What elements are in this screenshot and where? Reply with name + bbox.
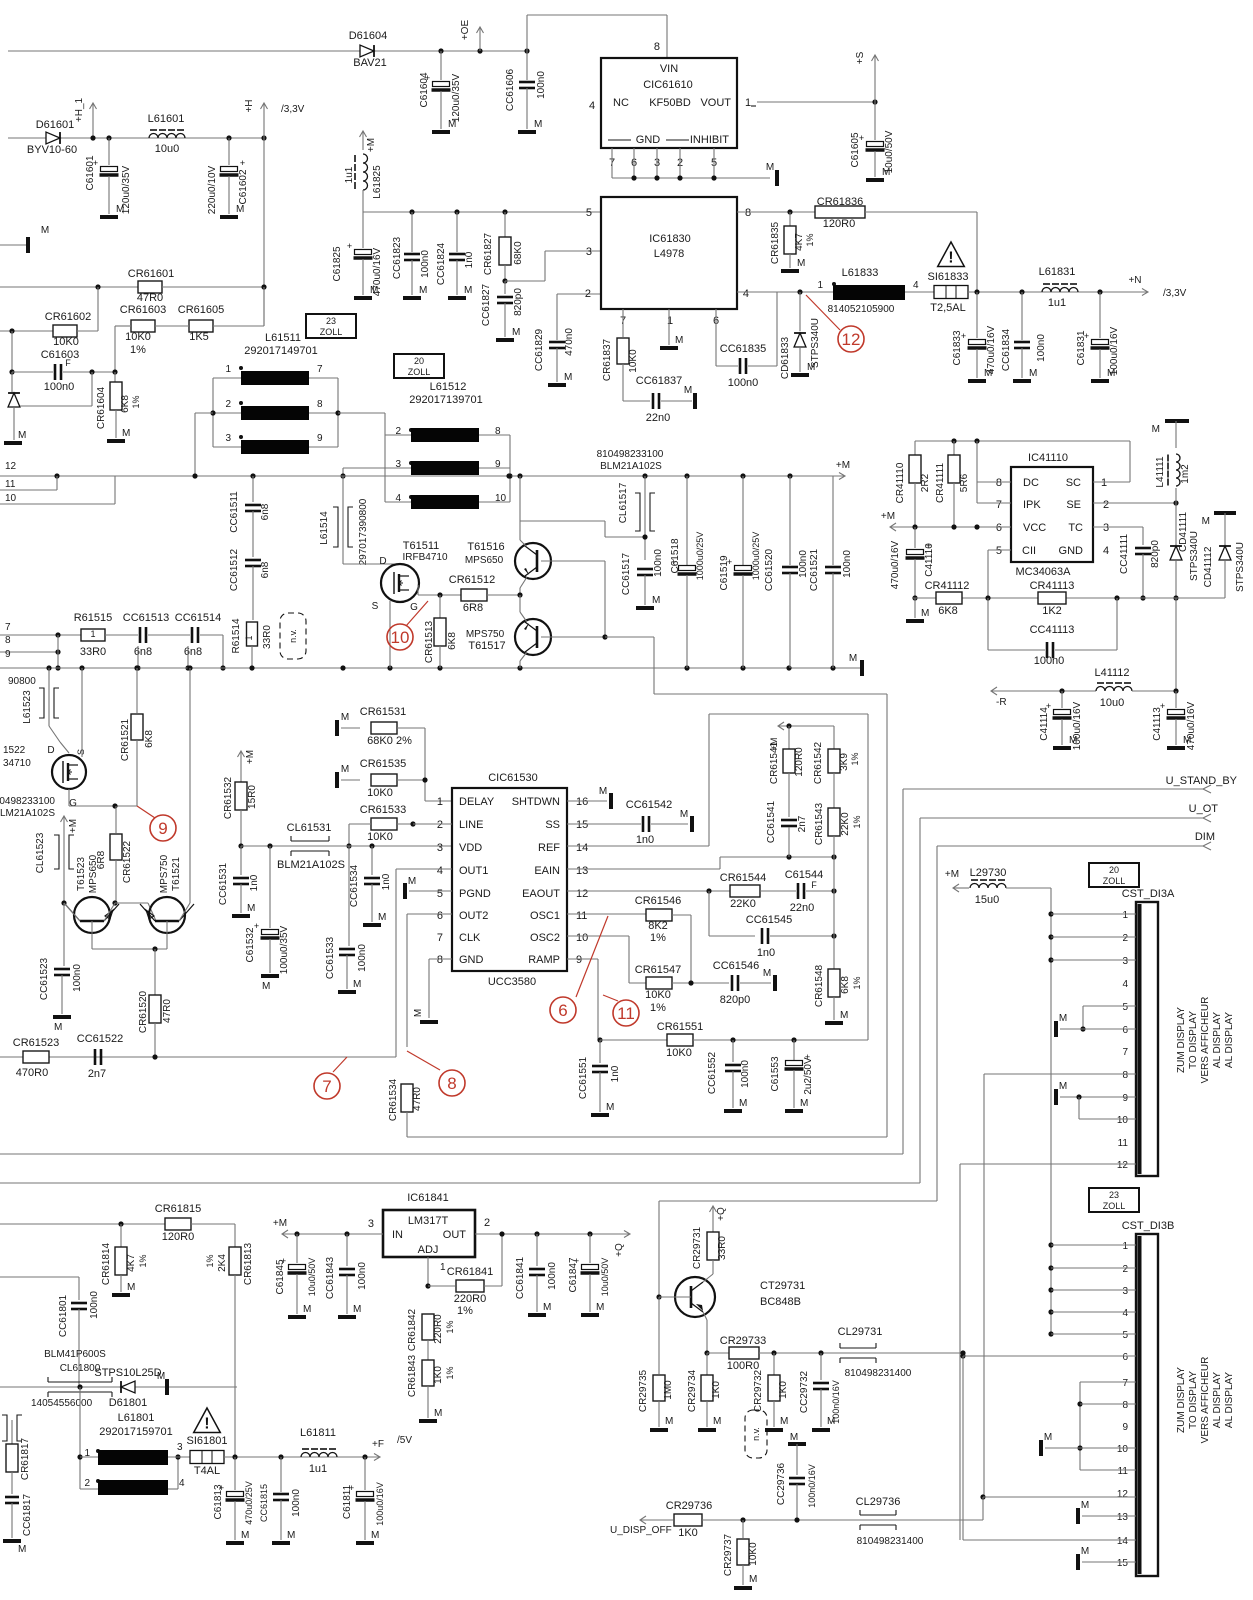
ground M CC29736 top: [788, 1442, 806, 1446]
svg-text:M: M: [1107, 368, 1115, 379]
svg-text:100n0: 100n0: [44, 381, 75, 393]
svg-text:+S: +S: [855, 51, 866, 64]
svg-text:1u1: 1u1: [1048, 297, 1066, 309]
svg-text:100n0: 100n0: [653, 549, 664, 577]
svg-text:CL61531: CL61531: [287, 822, 332, 834]
resistor CR61817 left edge: [11, 1420, 13, 1444]
ground M CC61523: [53, 1015, 71, 1019]
svg-text:CST_DI3A: CST_DI3A: [1122, 888, 1175, 900]
ground M CC61824: [448, 296, 466, 300]
svg-text:23: 23: [1109, 1190, 1119, 1200]
wire L61801 left rail: [79, 1387, 81, 1489]
svg-text:9: 9: [576, 954, 582, 966]
wire CR61602 to CR61601 node: [77, 330, 98, 332]
svg-text:120R0: 120R0: [162, 1231, 194, 1243]
svg-text:2: 2: [484, 1217, 490, 1229]
capacitor CC61823 100n0: [409, 209, 414, 214]
svg-text:1K0: 1K0: [778, 1381, 789, 1399]
ground M CC61829: [548, 383, 566, 387]
zener diode left edge: [11, 372, 13, 392]
svg-text:L61811: L61811: [300, 1427, 336, 1439]
svg-text:M: M: [116, 204, 124, 215]
svg-text:CC29732: CC29732: [799, 1370, 810, 1413]
resistor CR61602 10K0: [0, 330, 53, 332]
diode D61601 BYV10-60: [46, 132, 60, 144]
svg-text:1: 1: [745, 97, 751, 109]
resistor CR61532 15R0: [240, 766, 242, 782]
svg-text:7: 7: [1122, 1047, 1128, 1058]
fuse SI61833 T2,5AL: [934, 286, 968, 299]
svg-text:810498233100: 810498233100: [0, 796, 55, 807]
svg-text:+Q: +Q: [614, 1243, 625, 1257]
svg-text:CD41112: CD41112: [1203, 546, 1214, 587]
wire DI3A pin2: [1048, 934, 1053, 939]
svg-text:C61532: C61532: [245, 927, 256, 962]
svg-text:STPS340U: STPS340U: [810, 318, 821, 368]
svg-text:CR61542: CR61542: [813, 741, 824, 784]
svg-text:1%: 1%: [850, 752, 860, 765]
svg-text:+M: +M: [245, 750, 256, 764]
svg-text:AL DISPLAY: AL DISPLAY: [1224, 1372, 1235, 1428]
box 23 ZOLL DI3B: [1089, 1188, 1139, 1212]
svg-text:LINE: LINE: [459, 819, 483, 831]
svg-text:6K8: 6K8: [447, 632, 458, 650]
red callout 12: [806, 295, 840, 330]
box 20 ZOLL DI3A: [1089, 863, 1139, 887]
svg-text:M: M: [763, 968, 771, 979]
svg-text:810498231400: 810498231400: [845, 1368, 912, 1379]
svg-text:10: 10: [391, 628, 410, 647]
svg-text:-R: -R: [996, 697, 1007, 708]
svg-text:T61523: T61523: [76, 857, 87, 891]
svg-text:C61604: C61604: [419, 72, 430, 107]
svg-text:D: D: [379, 556, 386, 567]
ground M CR61814: [112, 1293, 130, 1297]
svg-text:10K0: 10K0: [666, 1047, 692, 1059]
ground M C61825: [354, 296, 372, 300]
svg-text:470u0/16V: 470u0/16V: [890, 540, 901, 589]
wire L41112 node: [1175, 598, 1177, 691]
capacitor CC61513 6n8: [105, 634, 138, 636]
capacitor CC61801 100n0: [71, 1302, 87, 1305]
IC61830 L4978 box: [601, 197, 737, 309]
svg-text:M: M: [534, 119, 542, 130]
svg-text:CR41111: CR41111: [935, 463, 946, 503]
svg-text:220R0: 220R0: [433, 1314, 444, 1344]
svg-text:3: 3: [1122, 956, 1128, 967]
wire pin4 OUT1: [396, 868, 452, 870]
svg-text:CR61815: CR61815: [155, 1203, 201, 1215]
svg-text:100n0: 100n0: [357, 1262, 368, 1290]
capacitor CC61514 6n8: [148, 634, 190, 636]
resistor CR61543 22K0 1%: [828, 808, 840, 836]
svg-text:UCC3580: UCC3580: [488, 976, 536, 988]
svg-text:/5V: /5V: [397, 1435, 412, 1446]
svg-text:CLK: CLK: [459, 932, 481, 944]
ground M CR61604: [107, 439, 125, 443]
svg-text:12: 12: [1117, 1489, 1129, 1500]
wire DIM bottom y=1201: [659, 1200, 937, 1202]
svg-text:5R6: 5R6: [959, 473, 970, 492]
capacitor CC61815 100n0: [278, 1454, 283, 1459]
wire DI3B pins7-11 link: [1079, 1382, 1081, 1470]
wire OUT1 riser: [395, 869, 397, 1057]
wire base rail to feedback: [605, 636, 654, 638]
capacitor C61604 120u0/35V: [438, 48, 443, 53]
wire T61516 collector aux path: [520, 520, 605, 522]
wire CR61521 drop: [136, 752, 138, 806]
node +H arrow /3,3V: [261, 135, 266, 140]
svg-text:100n0: 100n0: [1036, 334, 1047, 362]
svg-text:CR29734: CR29734: [687, 1369, 698, 1412]
capacitor C41113 470u0/16V: [1175, 691, 1177, 708]
svg-text:34710: 34710: [3, 758, 31, 769]
svg-text:3: 3: [1103, 522, 1109, 534]
svg-text:L61833: L61833: [842, 267, 879, 279]
capacitor CC61520 100n0: [789, 476, 791, 565]
wire zener to C61603 row: [91, 372, 93, 406]
svg-text:CST_DI3B: CST_DI3B: [1122, 1220, 1175, 1232]
svg-text:INHIBIT: INHIBIT: [690, 134, 729, 146]
svg-text:M: M: [54, 1022, 62, 1033]
svg-text:L4978: L4978: [654, 248, 685, 260]
svg-text:1n0: 1n0: [757, 947, 775, 959]
svg-text:9: 9: [317, 433, 323, 444]
svg-text:4: 4: [179, 1478, 185, 1489]
ground M CC61552: [724, 1109, 742, 1113]
svg-text:M: M: [157, 1371, 165, 1382]
svg-text:T61517: T61517: [468, 640, 505, 652]
svg-text:M: M: [262, 981, 270, 992]
svg-text:VCC: VCC: [1023, 522, 1046, 534]
wire top rail y=51: [8, 50, 527, 52]
svg-text:6: 6: [558, 1001, 567, 1020]
ground M DI3B pin13: [1076, 1508, 1080, 1524]
svg-text:100n0: 100n0: [740, 1060, 751, 1088]
svg-text:M: M: [341, 712, 349, 723]
svg-text:C61831: C61831: [1076, 330, 1087, 365]
svg-text:5: 5: [996, 545, 1002, 557]
node +M stub error amp: [778, 722, 784, 730]
svg-text:CR61814: CR61814: [101, 1242, 112, 1285]
svg-text:CC61514: CC61514: [175, 612, 221, 624]
svg-text:GND: GND: [1059, 545, 1084, 557]
ground M CC61534: [363, 923, 381, 927]
ferrite L61514 297017390800: [342, 476, 344, 564]
wire pin13 EAIN: [567, 868, 720, 870]
ground M CC61606: [518, 130, 536, 134]
ground M C61532: [261, 974, 279, 978]
svg-text:CD41111: CD41111: [1178, 512, 1189, 552]
resistor CR61542 3K9 1%: [833, 726, 835, 749]
capacitor CC61511 6n8: [252, 476, 254, 502]
capacitor CC61824 1n0: [454, 209, 459, 214]
svg-text:CC61823: CC61823: [392, 236, 403, 279]
svg-text:292017149701: 292017149701: [244, 345, 317, 357]
wire U_STAND_BY riser x=903: [902, 789, 904, 1154]
svg-text:1: 1: [440, 1262, 446, 1273]
svg-text:CR61551: CR61551: [657, 1021, 703, 1033]
svg-text:F: F: [65, 358, 71, 368]
svg-text:VIN: VIN: [660, 63, 678, 75]
svg-text:+OE: +OE: [460, 20, 471, 41]
svg-text:BLM21A102S: BLM21A102S: [600, 461, 662, 472]
svg-text:10: 10: [5, 493, 17, 504]
svg-text:M: M: [713, 1416, 721, 1427]
svg-text:CC41111: CC41111: [1119, 534, 1130, 574]
svg-text:ZOLL: ZOLL: [408, 367, 431, 377]
svg-text:4K7: 4K7: [126, 1254, 137, 1272]
svg-text:!: !: [948, 249, 953, 266]
svg-text:1n0: 1n0: [610, 1065, 621, 1082]
svg-text:ADJ: ADJ: [418, 1244, 439, 1256]
svg-text:11: 11: [617, 1004, 635, 1023]
svg-text:10K0: 10K0: [367, 831, 393, 843]
inductor L61831 1u1: [1042, 288, 1078, 292]
svg-text:810498233100: 810498233100: [597, 449, 664, 460]
ground M C61604: [432, 130, 450, 134]
svg-text:8: 8: [317, 399, 323, 410]
svg-text:CC61545: CC61545: [746, 914, 792, 926]
svg-text:8: 8: [437, 954, 443, 966]
svg-text:CC61523: CC61523: [39, 957, 50, 1000]
svg-text:M: M: [434, 1408, 442, 1419]
resistor CR29734 1K0: [706, 1353, 708, 1375]
svg-text:CC61801: CC61801: [58, 1294, 69, 1337]
svg-text:2n7: 2n7: [797, 815, 808, 832]
svg-text:20: 20: [1109, 865, 1119, 875]
svg-text:NC: NC: [613, 97, 629, 109]
svg-text:6n8: 6n8: [134, 646, 152, 658]
svg-text:CIC61610: CIC61610: [643, 79, 693, 91]
capacitor C61518 1000u0/25V: [686, 476, 688, 565]
svg-text:MPS650: MPS650: [88, 854, 99, 893]
svg-text:14: 14: [1117, 1536, 1129, 1547]
svg-text:IC61841: IC61841: [407, 1192, 449, 1204]
svg-text:CR61841: CR61841: [447, 1266, 493, 1278]
ground M C61813: [226, 1541, 244, 1545]
wire CIC61610 ground row: [612, 177, 770, 179]
ground M CR29732: [765, 1428, 783, 1432]
svg-text:EAOUT: EAOUT: [522, 888, 560, 900]
svg-text:1%: 1%: [650, 932, 666, 944]
svg-text:+: +: [240, 158, 245, 168]
svg-text:R61514: R61514: [231, 618, 242, 653]
svg-text:2: 2: [437, 819, 443, 831]
svg-text:ZUM DISPLAY: ZUM DISPLAY: [1176, 1367, 1187, 1433]
svg-text:CR61827: CR61827: [483, 232, 494, 275]
svg-text:CC61511: CC61511: [229, 491, 240, 533]
resistor CR61842 220R0 1%: [422, 1314, 434, 1340]
wire DI3A pin12: [960, 1163, 1136, 1165]
ground M CC61533: [338, 990, 356, 994]
box 23 ZOLL: [306, 314, 356, 338]
svg-text:TO DISPLAY: TO DISPLAY: [1188, 1371, 1199, 1429]
ground M C41114: [1053, 746, 1071, 750]
svg-text:AL DISPLAY: AL DISPLAY: [1212, 1012, 1223, 1068]
resistor CR61541 120R0: [788, 726, 790, 749]
svg-text:+M: +M: [881, 511, 895, 522]
svg-text:CL61523: CL61523: [35, 832, 46, 873]
svg-text:M: M: [378, 912, 386, 923]
svg-text:CC61834: CC61834: [1001, 328, 1012, 371]
svg-text:10: 10: [1117, 1444, 1129, 1455]
svg-text:CR61546: CR61546: [635, 895, 681, 907]
resistor CR61604 6K8 1%: [114, 372, 116, 382]
node +OE arrow: [477, 48, 482, 53]
svg-text:M: M: [800, 1098, 808, 1109]
svg-text:CR61604: CR61604: [96, 386, 107, 429]
svg-text:3: 3: [437, 842, 443, 854]
svg-text:4: 4: [743, 288, 749, 300]
wire VDD rail y=846: [238, 843, 243, 848]
svg-text:2: 2: [84, 1478, 90, 1489]
svg-text:CR61817: CR61817: [20, 1437, 31, 1480]
svg-text:CC61843: CC61843: [325, 1256, 336, 1299]
ground M bus right end: [860, 660, 864, 676]
svg-text:GND: GND: [459, 954, 484, 966]
svg-text:M: M: [1029, 368, 1037, 379]
svg-text:C61602: C61602: [238, 169, 249, 204]
svg-text:IPK: IPK: [1023, 499, 1041, 511]
ground M CC29732: [812, 1428, 830, 1432]
svg-text:PGND: PGND: [459, 888, 491, 900]
svg-text:CC61817: CC61817: [22, 1493, 33, 1536]
svg-text:MPS650: MPS650: [465, 555, 504, 566]
bus IC41110 lower y=598: [913, 597, 1225, 599]
svg-text:R61515: R61515: [74, 612, 113, 624]
svg-text:IN: IN: [392, 1229, 403, 1241]
svg-text:CC61512: CC61512: [229, 548, 240, 591]
wire U_STAND_BY bottom y=1154: [0, 1153, 903, 1155]
svg-text:3: 3: [1122, 1286, 1128, 1297]
svg-text:+F: +F: [372, 1439, 384, 1450]
svg-text:M: M: [413, 1009, 424, 1017]
svg-text:2R2: 2R2: [920, 473, 931, 492]
wire CT29731 collector: [703, 1274, 713, 1282]
svg-text:6n8: 6n8: [260, 503, 271, 520]
wire CR61533 to VDD rail: [349, 823, 371, 825]
svg-text:T61521: T61521: [171, 857, 182, 891]
wire pin14 REF to top network: [567, 845, 709, 847]
svg-text:CR61603: CR61603: [120, 304, 166, 316]
svg-text:M: M: [543, 1302, 551, 1313]
svg-text:820p0: 820p0: [513, 288, 524, 316]
svg-text:4: 4: [589, 100, 595, 112]
svg-text:10K0: 10K0: [645, 989, 671, 1001]
svg-text:C61845: C61845: [275, 1259, 286, 1294]
node +H_1 arrow: [92, 103, 94, 138]
red callout 6: [576, 916, 608, 997]
svg-text:M: M: [408, 876, 416, 887]
wire pin1 SC: [1129, 441, 1131, 482]
svg-text:1n0: 1n0: [464, 251, 475, 268]
svg-text:M: M: [512, 327, 520, 338]
svg-text:8: 8: [745, 207, 751, 219]
ground M CR29735: [650, 1428, 668, 1432]
svg-text:CR29735: CR29735: [638, 1369, 649, 1412]
svg-text:CT29731: CT29731: [760, 1280, 805, 1292]
wire DI3A pin5-6 link: [1083, 1005, 1136, 1007]
svg-text:CR61813: CR61813: [243, 1242, 254, 1285]
ground M L41111 top: [1165, 419, 1189, 423]
resistor CR61837 10K0: [617, 338, 629, 364]
svg-text:33R0: 33R0: [717, 1236, 728, 1260]
svg-text:C61811: C61811: [342, 1484, 353, 1519]
svg-text:CIC61530: CIC61530: [488, 772, 538, 784]
wire DIM to base: [658, 1201, 660, 1297]
svg-text:11: 11: [1118, 1466, 1129, 1477]
svg-text:BLM41P600S: BLM41P600S: [44, 1349, 106, 1360]
svg-text:SC: SC: [1066, 477, 1081, 489]
svg-text:EAIN: EAIN: [534, 865, 560, 877]
svg-text:1u1: 1u1: [344, 166, 355, 183]
resistor CR29735 1M0: [658, 1297, 660, 1374]
wire L61512 to bus: [342, 468, 344, 476]
svg-text:CII: CII: [1022, 545, 1036, 557]
capacitor CC61512 6n8: [245, 559, 261, 562]
svg-text:MPS750: MPS750: [466, 629, 505, 640]
svg-text:90800: 90800: [8, 676, 36, 687]
svg-text:220R0: 220R0: [454, 1293, 486, 1305]
svg-text:CR61522: CR61522: [122, 840, 133, 883]
svg-text:1000u0/25V: 1000u0/25V: [751, 532, 761, 581]
wire L61825 to pin5 rail y=212: [362, 190, 364, 212]
ground M C61811: [356, 1541, 374, 1545]
svg-text:M: M: [464, 285, 472, 296]
ground M DI3B pin15: [1076, 1554, 1080, 1570]
svg-text:CR41110: CR41110: [895, 462, 906, 503]
wire DI3B pin4: [1048, 1309, 1053, 1314]
svg-text:1%: 1%: [205, 1254, 215, 1267]
svg-text:CC61824: CC61824: [436, 242, 447, 285]
svg-text:TO DISPLAY: TO DISPLAY: [1188, 1011, 1199, 1069]
svg-text:CC61520: CC61520: [764, 548, 775, 591]
svg-text:OUT1: OUT1: [459, 865, 488, 877]
svg-text:SS: SS: [545, 819, 560, 831]
svg-text:2: 2: [225, 399, 231, 410]
svg-text:M: M: [790, 1432, 798, 1443]
svg-text:7: 7: [1122, 1378, 1128, 1389]
capacitor CC61841 100n0: [534, 1231, 539, 1236]
resistor CR61520 47R0: [154, 949, 156, 995]
svg-text:6: 6: [996, 522, 1002, 534]
svg-text:1: 1: [1101, 477, 1107, 489]
svg-text:11: 11: [576, 910, 587, 922]
svg-text:CC61552: CC61552: [707, 1051, 718, 1094]
svg-text:M: M: [739, 1098, 747, 1109]
svg-text:CR61513: CR61513: [424, 620, 435, 663]
ground stub M left edge y=245: [0, 244, 27, 246]
node +F arrow /5V: [374, 1454, 380, 1461]
svg-text:CC41113: CC41113: [1030, 624, 1075, 636]
svg-text:CR61512: CR61512: [449, 574, 495, 586]
capacitor CC61606 100n0: [524, 48, 529, 53]
ground M CC61817: [3, 1539, 21, 1543]
svg-text:D61801: D61801: [109, 1397, 148, 1409]
svg-text:C61603: C61603: [41, 349, 80, 361]
svg-text:!: !: [204, 1415, 209, 1432]
svg-text:M: M: [766, 162, 774, 173]
svg-text:CC61534: CC61534: [349, 864, 360, 907]
svg-text:D61604: D61604: [349, 30, 388, 42]
svg-text:7: 7: [437, 932, 443, 944]
svg-text:C61519: C61519: [719, 555, 730, 590]
svg-text:SI61801: SI61801: [187, 1435, 228, 1447]
svg-text:CC61546: CC61546: [713, 960, 759, 972]
svg-text:GND: GND: [636, 134, 661, 146]
svg-text:L61601: L61601: [148, 113, 185, 125]
